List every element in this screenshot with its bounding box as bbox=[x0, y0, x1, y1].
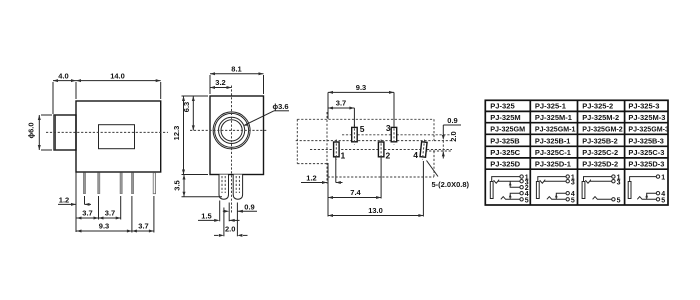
svg-text:PJ-325GM-2: PJ-325GM-2 bbox=[582, 125, 623, 134]
dimension 3.7 view3 bbox=[328, 98, 354, 126]
pin D bbox=[131, 173, 133, 194]
svg-text:2: 2 bbox=[386, 151, 391, 161]
sleeve rect cell3 bbox=[582, 182, 585, 199]
pad 5 bbox=[352, 127, 358, 141]
svg-text:ϕ3.6: ϕ3.6 bbox=[272, 102, 288, 111]
vertical centerline view2 bbox=[231, 86, 233, 215]
switch wire terminal4 cell1 bbox=[510, 193, 520, 199]
svg-text:1.2: 1.2 bbox=[306, 173, 316, 182]
svg-text:PJ-325M-3: PJ-325M-3 bbox=[628, 113, 665, 122]
svg-text:13.0: 13.0 bbox=[368, 206, 383, 215]
dimension 9.3 bottom view1 bbox=[76, 196, 132, 233]
sleeve rect cell4 bbox=[628, 182, 631, 199]
table grid bbox=[485, 100, 668, 205]
dimension 13.0 view3 bbox=[328, 161, 423, 217]
ring spring cell4 bbox=[637, 197, 656, 200]
svg-text:ϕ6.0: ϕ6.0 bbox=[27, 122, 36, 138]
svg-text:14.0: 14.0 bbox=[110, 72, 125, 81]
ring spring cell2 bbox=[547, 197, 566, 200]
svg-text:PJ-325GM-1: PJ-325GM-1 bbox=[535, 125, 576, 134]
svg-text:3.2: 3.2 bbox=[215, 78, 225, 87]
svg-text:2.0: 2.0 bbox=[225, 225, 235, 234]
svg-text:5: 5 bbox=[571, 197, 575, 204]
svg-text:3.7: 3.7 bbox=[82, 209, 92, 218]
svg-text:PJ-325-2: PJ-325-2 bbox=[582, 102, 613, 111]
horizontal centerline view2 bbox=[190, 129, 268, 131]
dimension 3.7 (second) bottom view1 bbox=[99, 196, 121, 220]
dashed centerline main view3 bbox=[296, 140, 433, 142]
dimension 6.3 left view2 bbox=[182, 96, 195, 130]
table row6 bbox=[490, 159, 664, 168]
switch arrow cell4 bbox=[645, 194, 648, 197]
table row1 bbox=[490, 102, 659, 111]
terminal circles cell2 bbox=[566, 175, 569, 201]
pin E bbox=[153, 173, 155, 194]
jack ring outer circle bbox=[213, 112, 250, 149]
pin 1 fold dashed lines bbox=[221, 176, 223, 193]
body outline view1 bbox=[76, 101, 161, 172]
svg-text:PJ-325-1: PJ-325-1 bbox=[535, 102, 567, 111]
terminal numbers cell4 bbox=[661, 175, 665, 205]
pin 1 view2 (U shape) bbox=[219, 175, 229, 200]
jack hole inner circle bbox=[221, 120, 242, 141]
svg-text:PJ-325D-3: PJ-325D-3 bbox=[628, 159, 664, 168]
label 5-(2.0X0.8) with leader bbox=[427, 161, 470, 190]
dimension 12.3 left view2 bbox=[172, 96, 208, 175]
switch wire terminal2 cell1 bbox=[510, 181, 520, 187]
dimension 1.2 bottom view1 bbox=[58, 173, 91, 233]
switch arrow cell2 bbox=[555, 194, 558, 197]
svg-text:PJ-325-3: PJ-325-3 bbox=[628, 102, 659, 111]
dimension 1.2 view3 bbox=[301, 157, 343, 184]
svg-text:3: 3 bbox=[617, 179, 621, 186]
svg-text:0.9: 0.9 bbox=[447, 116, 457, 125]
table row2 bbox=[490, 113, 665, 122]
svg-text:1.2: 1.2 bbox=[59, 196, 69, 205]
pin B bbox=[98, 173, 100, 194]
table row4 bbox=[490, 136, 664, 145]
svg-text:PJ-325B-3: PJ-325B-3 bbox=[628, 136, 664, 145]
svg-text:PJ-325M: PJ-325M bbox=[490, 113, 521, 122]
dashed outline barrel view3 bbox=[297, 119, 434, 163]
svg-text:PJ-325: PJ-325 bbox=[490, 102, 515, 111]
terminal numbers cell2 bbox=[571, 175, 575, 205]
wire to terminal 1 cell3 bbox=[584, 177, 612, 182]
terminal circles cell1 bbox=[520, 175, 523, 201]
svg-text:1: 1 bbox=[661, 175, 665, 182]
svg-text:3.7: 3.7 bbox=[105, 209, 115, 218]
svg-text:3.5: 3.5 bbox=[173, 180, 182, 190]
svg-text:PJ-325C-1: PJ-325C-1 bbox=[535, 148, 572, 157]
svg-text:5: 5 bbox=[360, 124, 365, 134]
svg-text:1.5: 1.5 bbox=[201, 211, 211, 220]
svg-text:PJ-325B-2: PJ-325B-2 bbox=[582, 136, 618, 145]
svg-text:3.7: 3.7 bbox=[138, 222, 148, 231]
svg-text:6.3: 6.3 bbox=[182, 102, 191, 112]
tip spring cell1 bbox=[494, 180, 520, 183]
switch arrows cell1 bbox=[509, 182, 512, 185]
pin C bbox=[120, 173, 122, 194]
pin 2 fold dashed lines bbox=[235, 176, 237, 193]
dimension phi6.0 left bbox=[27, 115, 53, 150]
dimension 3.7 (first) bottom view1 bbox=[76, 196, 99, 220]
svg-text:PJ-325M-1: PJ-325M-1 bbox=[535, 113, 573, 122]
svg-text:PJ-325B-1: PJ-325B-1 bbox=[535, 136, 571, 145]
terminal circles cell3 bbox=[612, 175, 615, 201]
svg-text:PJ-325B: PJ-325B bbox=[490, 136, 520, 145]
pad 1 bbox=[334, 142, 340, 157]
dashed centerline lower pads view3 bbox=[310, 149, 452, 151]
switch wire terminal4 cell4 bbox=[647, 193, 657, 199]
pin 2 view2 (U shape) bbox=[233, 175, 242, 200]
svg-text:12.3: 12.3 bbox=[172, 126, 181, 141]
centerline view1 bbox=[46, 131, 168, 133]
sleeve rect cell1 bbox=[490, 182, 493, 199]
body outline view2 bbox=[210, 96, 264, 175]
dimension 4.0 top bbox=[53, 72, 76, 115]
dashed body bottom view3 bbox=[328, 176, 434, 178]
barrel thick left face bbox=[54, 115, 56, 149]
svg-text:PJ-325D-2: PJ-325D-2 bbox=[582, 159, 618, 168]
svg-text:3.7: 3.7 bbox=[336, 98, 346, 107]
dimension 3.2 top view2 bbox=[210, 78, 232, 89]
sleeve rect cell2 bbox=[536, 182, 539, 199]
svg-text:PJ-325C-2: PJ-325C-2 bbox=[582, 148, 618, 157]
terminal numbers cell3 bbox=[617, 175, 621, 205]
dimension 2.0 bottom view2 bbox=[214, 203, 248, 237]
svg-text:PJ-325D-1: PJ-325D-1 bbox=[535, 159, 572, 168]
dimension 0.9 view3 (bracket) bbox=[442, 116, 461, 140]
wire to terminal 1 cell2 bbox=[538, 177, 566, 182]
dimension 7.4 view3 bbox=[328, 157, 381, 217]
barrel (bushing) view1 bbox=[54, 115, 76, 150]
svg-text:1: 1 bbox=[341, 151, 346, 161]
jack ring third circle bbox=[219, 117, 245, 143]
dimension 9.3 view3 bbox=[328, 83, 394, 127]
svg-text:3: 3 bbox=[386, 123, 391, 133]
wire to terminal 1 cell1 bbox=[492, 177, 520, 182]
dimension 0.9 bottom view2 bbox=[223, 202, 257, 221]
svg-text:5: 5 bbox=[617, 197, 621, 204]
pad 2 bbox=[378, 142, 384, 157]
terminal circles cell4 bbox=[656, 175, 659, 201]
wire to terminal 1 cell4 bbox=[630, 177, 657, 182]
pad 3 bbox=[391, 127, 397, 141]
dimension 14.0 top bbox=[76, 72, 161, 100]
svg-text:PJ-325C-3: PJ-325C-3 bbox=[628, 148, 664, 157]
ring spring cell1 bbox=[501, 197, 520, 200]
jack ring second circle bbox=[215, 113, 249, 147]
svg-text:9.3: 9.3 bbox=[356, 83, 366, 92]
tip spring cell2 bbox=[540, 180, 566, 183]
dimension 1.5 bottom view2 bbox=[198, 201, 240, 222]
inner window rect view1 bbox=[99, 125, 135, 149]
svg-text:4: 4 bbox=[413, 150, 418, 160]
pad 4 (tilted) bbox=[420, 139, 428, 159]
svg-text:4.0: 4.0 bbox=[58, 72, 68, 81]
terminal numbers cell1 bbox=[525, 175, 529, 205]
svg-text:9.3: 9.3 bbox=[99, 222, 109, 231]
ring spring cell3 bbox=[593, 197, 612, 200]
svg-text:5-(2.0X0.8): 5-(2.0X0.8) bbox=[432, 180, 470, 189]
svg-text:3: 3 bbox=[571, 179, 575, 186]
svg-text:PJ-325D: PJ-325D bbox=[490, 159, 521, 168]
svg-text:5: 5 bbox=[525, 197, 529, 204]
switch wire terminal4 cell2 bbox=[556, 193, 566, 199]
dashed body boundary vertical view3 bbox=[326, 112, 328, 184]
svg-text:5: 5 bbox=[661, 197, 665, 204]
dimension 2.0 view3 bbox=[442, 131, 458, 158]
dashed centerline upper pads view3 bbox=[342, 134, 452, 136]
svg-text:8.1: 8.1 bbox=[231, 65, 241, 74]
dimension 8.1 top view2 bbox=[210, 65, 264, 95]
svg-text:7.4: 7.4 bbox=[350, 188, 361, 197]
svg-text:PJ-325GM: PJ-325GM bbox=[490, 125, 525, 134]
dimension 3.5 bottom-left view2 bbox=[173, 175, 223, 197]
svg-text:PJ-325C: PJ-325C bbox=[490, 148, 521, 157]
pin A bbox=[83, 173, 85, 194]
table row5 bbox=[490, 148, 664, 157]
svg-text:0.9: 0.9 bbox=[244, 202, 254, 211]
dashed body right edge with tab view3 bbox=[425, 119, 452, 177]
dimension 3.7 (third) bottom view1 bbox=[132, 196, 154, 233]
table row3 bbox=[490, 125, 669, 134]
svg-text:PJ-325M-2: PJ-325M-2 bbox=[582, 113, 619, 122]
svg-text:2.0: 2.0 bbox=[449, 131, 458, 141]
tip spring cell3 bbox=[585, 180, 611, 183]
svg-text:PJ-325GM-3: PJ-325GM-3 bbox=[628, 125, 669, 134]
phi3.6 label with leader bbox=[244, 102, 290, 126]
